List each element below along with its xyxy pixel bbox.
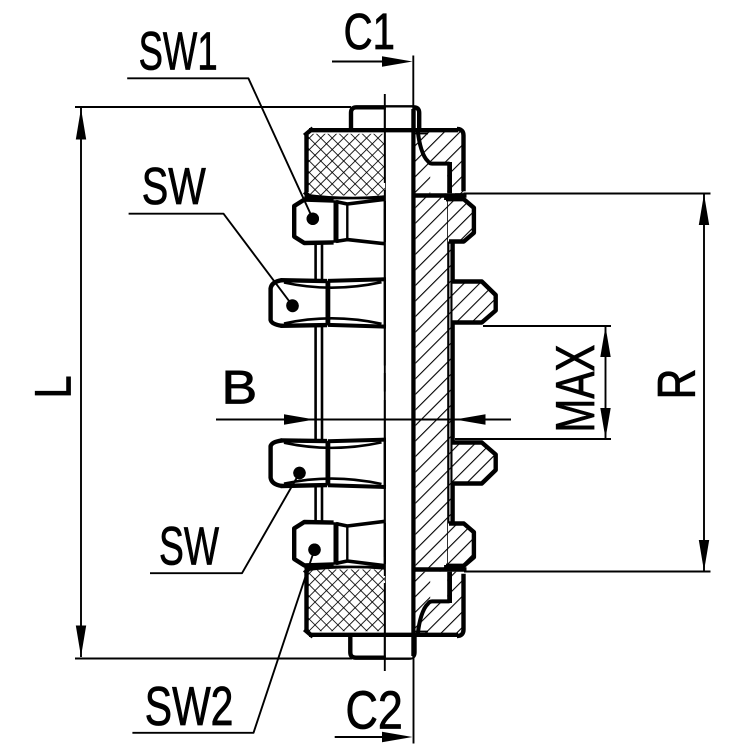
wire: MAX bottom extension line bbox=[455, 438, 611, 440]
bottom stub bbox=[350, 634, 414, 658]
hex protrusion 1 top right (sectioned) bbox=[446, 194, 474, 242]
svg-text:SW: SW bbox=[142, 158, 206, 216]
hex protrusion 2 right (sectioned) bbox=[453, 282, 496, 323]
back nut top (sectioned) bbox=[416, 129, 464, 193]
wire: body left edge segments at hexes bbox=[384, 201, 386, 564]
arrow R top bbox=[699, 194, 709, 225]
dimension R line bbox=[703, 194, 705, 571]
hex protrusion 2' right lower (sectioned) bbox=[453, 443, 496, 484]
top stub bbox=[351, 107, 419, 133]
svg-text:B: B bbox=[222, 361, 258, 414]
hex protrusion 1' bottom right (sectioned) bbox=[446, 524, 474, 572]
arrow L bottom bbox=[76, 626, 86, 657]
node dot SW lower bbox=[293, 467, 305, 479]
svg-text:L: L bbox=[25, 376, 82, 399]
centerline (dash-dot axis, on top) bbox=[384, 94, 386, 671]
knurl bottom edge line (also back nut bottom edge) bbox=[309, 633, 458, 637]
node dot SW2 bbox=[308, 544, 320, 556]
back nut bottom top edge bbox=[416, 567, 467, 571]
node dot SW1 bbox=[307, 213, 319, 225]
middle tube thread lines bbox=[314, 325, 317, 441]
wire: C1 extension line bbox=[412, 56, 414, 108]
thread segment between SW1 and SW hex bbox=[314, 243, 317, 280]
dimension B line (on top) bbox=[216, 419, 511, 421]
dimension MAX line bbox=[605, 326, 607, 439]
arrow B right bbox=[455, 414, 486, 424]
wire: SW1 leader (on top) bbox=[127, 78, 313, 219]
svg-text:R: R bbox=[648, 369, 707, 400]
svg-text:SW: SW bbox=[159, 517, 219, 577]
node dot SW upper bbox=[286, 299, 298, 311]
svg-text:SW2: SW2 bbox=[145, 676, 234, 737]
knurl bottom block bbox=[304, 566, 385, 637]
arrow B left bbox=[284, 414, 315, 424]
knurl top block bbox=[304, 128, 385, 199]
dimension C2 line bbox=[335, 736, 405, 738]
wire: SW upper leader (on top) bbox=[129, 214, 293, 306]
dimension L line bbox=[80, 108, 82, 657]
arrow R bottom bbox=[699, 540, 709, 571]
arrow C2 bbox=[382, 732, 413, 742]
hex nut SW (bottom big) bbox=[271, 439, 386, 487]
hex nut SW2 (bottom small) bbox=[294, 521, 385, 565]
main sectioned bar (panel/locknut body) bbox=[416, 194, 453, 572]
arrow C1 bbox=[382, 56, 413, 66]
wire: L top extension line bbox=[75, 106, 351, 108]
arrow L top bbox=[76, 109, 86, 140]
wire: R top extension line bbox=[455, 193, 711, 195]
wire: R bottom extension line bbox=[464, 571, 711, 573]
wire: SW2 leader (on top) bbox=[132, 553, 313, 733]
body bar through panel bbox=[385, 107, 414, 658]
arrow MAX bottom bbox=[600, 408, 610, 439]
hex nut SW (top big) bbox=[271, 279, 386, 327]
hex nut SW1 (top small) bbox=[294, 199, 385, 243]
svg-text:C2: C2 bbox=[346, 681, 403, 741]
wire: C2 extension line bbox=[413, 658, 415, 744]
thread segment between big hex' and SW2 hex bbox=[314, 487, 317, 523]
back nut bottom (sectioned) bbox=[416, 572, 464, 636]
knurl top edge line (also back nut top edge) bbox=[309, 128, 458, 132]
back nut top bottom edge bbox=[416, 193, 467, 197]
svg-text:MAX: MAX bbox=[544, 345, 606, 433]
wire: L bottom extension line bbox=[75, 658, 352, 660]
dimension C1 line bbox=[332, 61, 405, 63]
wire: SW lower leader (on top) bbox=[150, 473, 300, 573]
arrow MAX top bbox=[600, 327, 610, 358]
wire: MAX top extension line bbox=[483, 325, 611, 327]
svg-text:SW1: SW1 bbox=[139, 21, 218, 81]
svg-text:C1: C1 bbox=[344, 3, 395, 60]
